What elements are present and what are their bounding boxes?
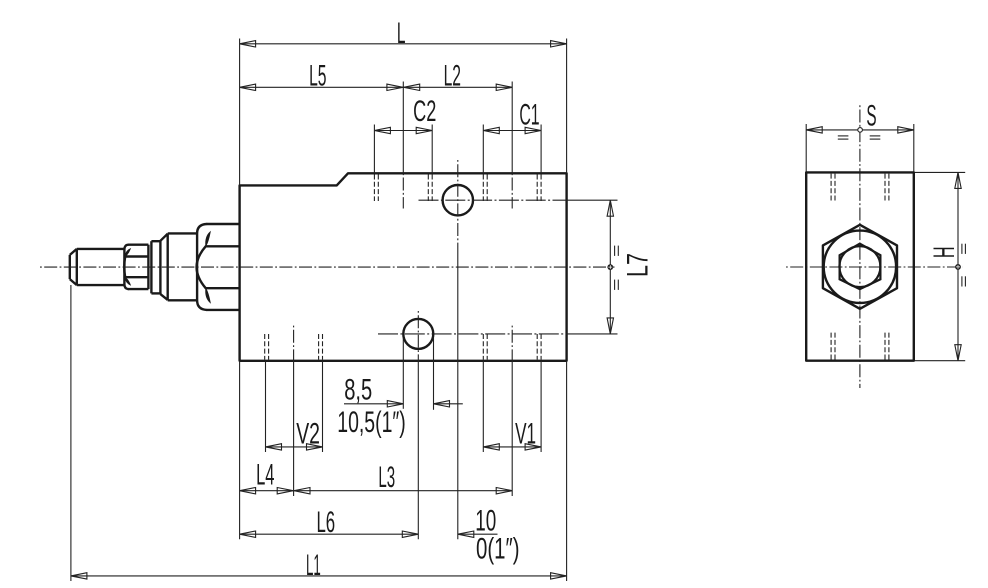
svg-text:L: L [397,17,406,50]
svg-text:10,5(1″): 10,5(1″) [337,406,406,439]
svg-text:C2: C2 [413,95,436,128]
svg-text:V2: V2 [296,418,320,451]
svg-text:L5: L5 [309,60,326,93]
svg-text:8,5: 8,5 [344,374,372,407]
svg-text:L2: L2 [444,60,461,93]
svg-text:L7: L7 [622,253,655,277]
svg-text:L3: L3 [378,461,395,494]
svg-text:0(1″): 0(1″) [476,532,520,565]
svg-text:V1: V1 [515,418,536,451]
svg-text:L6: L6 [316,506,335,539]
svg-text:L4: L4 [256,458,274,491]
svg-text:S: S [866,99,876,132]
svg-text:L1: L1 [306,549,321,582]
svg-text:C1: C1 [519,98,539,131]
svg-text:H: H [928,246,961,258]
